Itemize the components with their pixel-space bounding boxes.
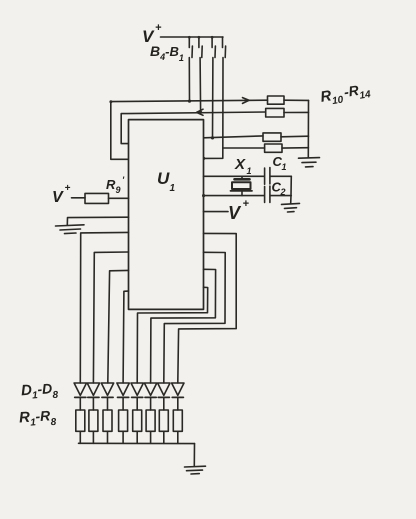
diode D4 [117, 383, 129, 410]
switch B4 [188, 36, 192, 58]
wire row 4 (line4 branch to R13) [223, 147, 265, 149]
wire switch line 2 [199, 58, 202, 113]
wire row 1 to bus [284, 99, 309, 101]
node V+ (left supply) [52, 183, 71, 206]
label B4-B1 [150, 43, 184, 63]
svg-text:+: + [155, 22, 162, 34]
switch B3 [198, 36, 203, 58]
switch B2 [211, 36, 216, 58]
label R9 [106, 175, 125, 195]
wire left loop L4 [123, 291, 128, 383]
wire row 4 to bus [282, 147, 308, 149]
label C2 [272, 180, 286, 198]
resistor R3 [103, 410, 112, 443]
wire left loop L1 [80, 232, 128, 383]
wire row 2 loop (U1 left pin to R11) [121, 112, 266, 144]
junction line2/row2 [199, 111, 202, 114]
wire C1 to right vertical [270, 175, 291, 177]
resistor R8 [173, 410, 182, 443]
label R1-R8 [18, 407, 57, 431]
wire row 3 (U1 right pin to R12) [204, 136, 264, 138]
resistor R2 [89, 410, 98, 443]
wire left loop L3 [108, 270, 129, 383]
wire C2 to right vertical [270, 195, 291, 197]
label U1 [157, 169, 176, 194]
wire right loop R4 [137, 287, 208, 383]
wire switch line 1 [188, 58, 190, 102]
junction line1/row1 [188, 100, 191, 103]
wire XTAL bottom (U1 to C2) [204, 195, 265, 197]
svg-text:+: + [65, 183, 71, 194]
resistor R13 [265, 144, 282, 152]
wire bottom bus [79, 442, 195, 444]
junction XTAL bottom at U1 [202, 194, 205, 197]
wire row 3 to bus [281, 135, 309, 138]
node V+ (bottom center) [228, 198, 250, 223]
wire right vertical to ground [290, 176, 293, 203]
wire V+ stub [204, 211, 229, 213]
svg-text:1: 1 [247, 166, 252, 176]
wire U1 to left ground [67, 217, 128, 225]
node V+ (top supply label) [142, 22, 162, 46]
wire right loop R3 [151, 269, 216, 383]
diode D6 [144, 383, 156, 410]
ground (right of R10-R14) [299, 158, 320, 167]
wire right loop R1 [178, 233, 236, 383]
resistor R6 [146, 410, 155, 443]
wire V+ to R9 [72, 197, 86, 199]
wire switch line 4 [204, 58, 224, 159]
svg-text:+: + [243, 198, 250, 210]
arrow on row 1 [243, 98, 250, 104]
resistor R1 [76, 410, 85, 443]
svg-text:1: 1 [282, 162, 287, 172]
diode D8 [172, 383, 184, 410]
resistor R12 [263, 133, 281, 141]
ground (left, below R9) [56, 225, 85, 234]
wire row 1 loop (U1 left pin to R10) [111, 100, 268, 159]
op-amp U1 (IC body) [129, 120, 204, 310]
wire V+ rail [161, 36, 224, 38]
svg-text:U: U [157, 169, 170, 188]
wire left loop L2 [93, 252, 128, 383]
resistor R5 [133, 410, 142, 443]
resistor R4 [119, 410, 128, 443]
capacitor C1 [265, 168, 270, 185]
wire XTAL top (U1 to C1) [204, 175, 265, 177]
wire switch line 3 [212, 58, 214, 139]
resistor R11 [266, 108, 284, 117]
svg-text:9: 9 [116, 185, 121, 195]
crystal X1 [231, 176, 253, 195]
svg-text:R: R [106, 177, 116, 192]
junction line3/row3 [211, 136, 214, 139]
svg-text:V: V [228, 203, 242, 223]
resistor R7 [159, 410, 168, 443]
svg-text:V: V [52, 189, 64, 206]
svg-text:2: 2 [280, 187, 286, 197]
resistor R10 [268, 96, 285, 104]
junction line4/U1 pin [202, 157, 205, 160]
label R10-R14 [319, 80, 372, 109]
wire bus to ground [193, 444, 195, 466]
diode D1 [74, 383, 86, 410]
label X1 [234, 156, 252, 176]
diode D2 [87, 383, 99, 410]
wire R9 to U1 [109, 197, 129, 199]
svg-text:1: 1 [170, 183, 176, 194]
junction row1 corner [109, 100, 112, 103]
wire resistor bus vertical [307, 100, 309, 157]
resistor R9 [85, 193, 109, 203]
label C1 [273, 154, 287, 172]
diode D7 [158, 383, 170, 410]
wire row 2 to bus [284, 111, 309, 113]
ground (below C2) [282, 203, 300, 212]
diode D5 [131, 383, 143, 410]
ground (bottom) [185, 466, 206, 474]
switch B1 [223, 37, 226, 58]
label D1-D8 [20, 380, 59, 404]
arrow on row 2 [197, 109, 203, 115]
svg-text:X: X [234, 156, 246, 173]
capacitor C2 [265, 186, 270, 202]
diode D3 [101, 383, 113, 410]
wire right loop R2 [164, 252, 225, 383]
